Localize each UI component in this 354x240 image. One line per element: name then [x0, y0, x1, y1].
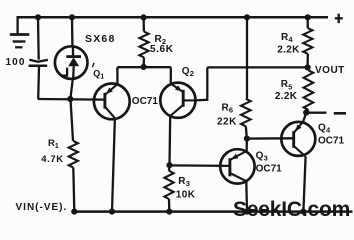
svg-text:VIN(-VE).: VIN(-VE).	[16, 202, 68, 213]
wire Q1 collector down	[112, 118, 115, 211]
svg-text:1: 1	[100, 74, 104, 81]
transistor Q2 OC71	[160, 83, 195, 118]
node dot R6 / Q3 emitter / Q4 base	[244, 136, 250, 142]
wire Q1 emitter up	[116, 67, 118, 84]
wire SX68 bottom lead	[70, 79, 72, 99]
node dot VOUT (R4/R5 junction)	[305, 64, 311, 70]
wire capacitor top lead	[37, 17, 40, 59]
resistor R3 10K	[164, 171, 173, 199]
wire bottom rail VIN(-VE)	[74, 210, 352, 213]
svg-text:3: 3	[264, 154, 268, 163]
svg-text:Q: Q	[182, 66, 190, 77]
resistor R4 2.2K	[303, 28, 312, 54]
wire SX68 top lead	[71, 17, 74, 46]
svg-text:VOUT: VOUT	[315, 65, 345, 76]
svg-text:2.2K: 2.2K	[275, 91, 298, 102]
svg-text:3: 3	[186, 179, 190, 188]
wire Q2 collector down	[168, 116, 171, 165]
wire Q2 base to VOUT riser	[195, 67, 208, 100]
node dot bottom rail / Q3 collector	[244, 209, 250, 215]
wire R3 junction line (Q2 collector to Q3 base)	[170, 164, 230, 167]
node dot bottom rail / R3	[166, 209, 172, 215]
svg-text:2.2K: 2.2K	[277, 44, 300, 55]
wire R2 bottom lead	[142, 57, 145, 67]
wire R4 top lead	[307, 17, 309, 28]
wire capacitor bottom lead	[37, 67, 40, 99]
svg-text:Q: Q	[318, 123, 326, 134]
wire R6 top lead from rail	[246, 17, 248, 99]
wire Q4 emitter up to node	[303, 113, 306, 122]
svg-text:6: 6	[229, 106, 233, 115]
resistor R2 5.6K	[139, 32, 148, 58]
node dot bottom rail / R1	[71, 209, 77, 215]
transistor Q3 OC71	[220, 149, 254, 183]
capacitor 100	[29, 60, 48, 66]
wire R6 bottom lead	[246, 126, 247, 138]
svg-text:Q: Q	[256, 151, 264, 162]
transistor Q1 OC71	[94, 84, 130, 120]
node dot: top rail / capacitor branch	[35, 14, 41, 20]
resistor R5 2.2K	[304, 70, 314, 110]
wire Q3 emitter up to node	[245, 139, 248, 153]
svg-text:Q: Q	[93, 69, 100, 79]
wire Q4 collector down	[303, 156, 305, 211]
wire R5 bottom lead	[306, 110, 308, 113]
node dot A (cap / SX68 / R1 / Q1 base)	[67, 96, 73, 102]
node dot R2 bottom	[141, 64, 147, 70]
resistor R6 22K	[241, 99, 251, 127]
node dot Q2 collector / R3	[166, 162, 172, 168]
label - (negative supply)	[334, 112, 346, 115]
node dot: top rail / SX68 branch	[69, 14, 75, 20]
svg-text:OC71: OC71	[318, 135, 345, 146]
node dot R5 bottom / Q4 emitter	[303, 110, 309, 116]
wire Q2 emitter up	[170, 67, 172, 84]
node dot: top rail / R6	[244, 14, 250, 20]
svg-text:SX68: SX68	[85, 33, 116, 45]
svg-text:OC71: OC71	[132, 96, 159, 107]
diode SX68	[55, 46, 88, 79]
wire R2 top lead	[142, 17, 145, 31]
svg-text:5: 5	[288, 82, 292, 91]
svg-text:5.6K: 5.6K	[150, 44, 174, 55]
label Q1 tick	[93, 63, 95, 67]
wire emitter bus Q1-Q2	[117, 66, 170, 68]
wire R3 top lead	[168, 165, 171, 171]
wire R3 bottom lead	[168, 199, 171, 211]
transistor Q4 OC71	[281, 122, 315, 157]
svg-text:100: 100	[6, 57, 26, 68]
label + (positive supply)	[335, 14, 343, 24]
svg-text:2: 2	[190, 69, 194, 78]
node dot bottom rail / Q4 collector	[300, 209, 306, 215]
svg-text:10K: 10K	[176, 189, 196, 200]
wire VOUT line	[207, 66, 307, 68]
ground	[10, 17, 30, 48]
svg-text:SeekIC.com: SeekIC.com	[233, 198, 350, 221]
node dot: top rail / R4	[305, 14, 311, 20]
wire R1 top lead	[71, 99, 74, 141]
wire Q4 base from node	[247, 137, 294, 140]
node dot bottom rail / Q1 collector	[109, 209, 115, 215]
svg-text:4.7K: 4.7K	[41, 154, 63, 165]
wire R1 bottom lead	[73, 168, 74, 212]
wire Q3 collector down	[245, 181, 248, 211]
node dot: top rail / R2	[141, 14, 147, 20]
svg-text:1: 1	[55, 143, 59, 150]
wire node A base line to Q1	[38, 98, 105, 101]
wire top supply rail	[17, 16, 329, 19]
wire negative output stub	[306, 112, 326, 114]
svg-text:22K: 22K	[217, 117, 237, 128]
wire R4 bottom lead	[306, 54, 308, 68]
svg-text:OC71: OC71	[256, 163, 283, 174]
resistor R1 4.7K	[69, 141, 78, 168]
